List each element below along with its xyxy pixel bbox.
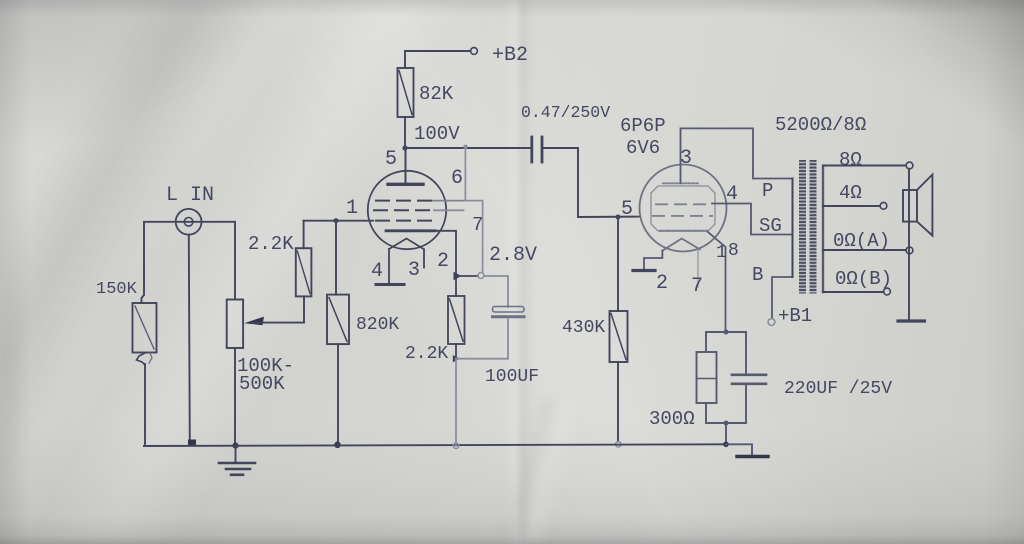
suppressor to cathode node wire	[465, 201, 482, 272]
svg-text:820K: 820K	[356, 315, 399, 335]
ground speaker	[898, 319, 925, 322]
svg-text:6: 6	[451, 167, 463, 190]
junction bypass bottom	[453, 355, 460, 362]
svg-text:2.2K: 2.2K	[405, 344, 448, 364]
svg-text:4Ω: 4Ω	[839, 182, 862, 204]
ground rail	[144, 444, 726, 446]
wire 82K to plate node	[404, 117, 406, 148]
wire cathode node to bypass branch	[456, 275, 478, 277]
svg-text:5: 5	[385, 148, 397, 171]
svg-text:2.2K: 2.2K	[248, 233, 294, 255]
wire jack sleeve to ground rail	[189, 235, 190, 443]
resistor 2.2K grid stopper	[248, 233, 311, 296]
junction cathode top	[724, 330, 729, 335]
tap 0 ohm A	[823, 230, 913, 254]
wire 820K to ground rail	[337, 344, 339, 445]
node 5 plate node	[385, 145, 408, 171]
svg-text:3: 3	[408, 259, 420, 282]
node grid junction	[616, 215, 621, 220]
svg-text:6P6P: 6P6P	[620, 115, 666, 137]
bottom rail RC	[706, 422, 746, 424]
svg-text:100V: 100V	[414, 123, 460, 145]
svg-text:6V6: 6V6	[626, 137, 660, 159]
cathode of V1	[386, 229, 435, 232]
screen grid row of V1	[376, 200, 433, 202]
control grid row of V1	[376, 220, 433, 222]
wire grid node to 430K	[617, 217, 619, 311]
svg-text:100K-: 100K-	[237, 355, 294, 377]
svg-text:0.47/250V: 0.47/250V	[521, 103, 610, 122]
wire +B2 to 82K	[405, 51, 471, 68]
junction rail right	[723, 442, 729, 448]
svg-text:7: 7	[691, 275, 703, 298]
potentiometer 100K-500K	[227, 300, 294, 396]
wire RC to ground rail	[725, 423, 727, 444]
pin 4 lead and chassis bar	[371, 249, 404, 285]
svg-text:SG: SG	[759, 215, 782, 237]
ground right chassis bar	[737, 455, 768, 458]
wiper arrow of pot	[244, 317, 304, 326]
wire plate node to coupling cap	[405, 147, 530, 149]
svg-text:8Ω: 8Ω	[839, 149, 862, 171]
svg-text:500K: 500K	[239, 373, 285, 395]
capacitor 100UF	[485, 307, 539, 388]
paper crease diagonal bottom	[470, 400, 590, 544]
node circle pin7 cathode	[478, 273, 484, 279]
junction jack sleeve rail	[188, 440, 196, 447]
svg-text:4: 4	[726, 183, 738, 206]
plate of V1	[388, 148, 423, 184]
svg-text:2: 2	[437, 250, 449, 273]
paper crease vertical	[503, 0, 533, 544]
svg-text:L IN: L IN	[166, 184, 214, 207]
input jack L IN	[166, 184, 214, 235]
bottom rail of bypass	[456, 358, 508, 360]
wire grid of first tube	[304, 220, 373, 222]
svg-text:220UF /25V: 220UF /25V	[784, 379, 892, 399]
suppressor grid row of V1	[374, 209, 434, 211]
wire cathode node to 2.2K	[455, 276, 457, 296]
junction RC bottom	[724, 421, 729, 426]
capacitor 0.47/250V	[521, 103, 610, 162]
junction cathode node	[454, 272, 462, 280]
svg-text:1: 1	[716, 243, 727, 263]
svg-text:P: P	[762, 180, 773, 202]
wire 150K to ground rail	[144, 364, 146, 446]
tube V2 envelope	[640, 165, 727, 252]
pin 2 wire and chassis bar	[633, 251, 668, 295]
wire screen to OPT tap	[712, 204, 792, 235]
cathode of V2	[660, 230, 707, 232]
core bar left	[799, 160, 806, 294]
terminal +B1	[768, 305, 812, 327]
heater of V1	[389, 239, 424, 250]
secondary winding	[822, 166, 824, 292]
top rail RC	[706, 331, 746, 333]
wire jack tip to volume pot	[234, 222, 236, 300]
wire wiper to 2.2K grid stopper	[303, 296, 305, 322]
screen grid extension wire	[433, 200, 465, 202]
svg-text:2: 2	[656, 272, 668, 295]
svg-text:150K: 150K	[96, 280, 138, 299]
svg-text:+B2: +B2	[492, 44, 528, 67]
wire plate to OPT	[681, 128, 793, 178]
junction bypass rail	[453, 443, 459, 449]
suppressor extension wire	[434, 209, 464, 211]
svg-text:5200Ω/8Ω: 5200Ω/8Ω	[775, 114, 866, 136]
cathode lead pins 1 8	[708, 232, 739, 332]
svg-text:300Ω: 300Ω	[649, 408, 695, 430]
svg-text:430K: 430K	[562, 318, 605, 338]
wire B to +B1	[772, 277, 792, 319]
svg-text:8: 8	[728, 241, 739, 261]
screen grid row of V2	[656, 203, 710, 205]
heater of V2	[662, 239, 699, 251]
tap 0 ohm B	[823, 268, 892, 295]
svg-text:2.8V: 2.8V	[489, 244, 537, 267]
wire 2.2K bottom	[455, 344, 457, 359]
wire jack tip to 150K branch	[142, 222, 236, 303]
control grid row of V2	[653, 215, 712, 217]
tap 8 ohm	[823, 149, 913, 171]
wire pot to ground rail	[234, 348, 236, 446]
resistor 150K	[96, 280, 157, 365]
tube V1 envelope	[368, 171, 446, 249]
svg-text:7: 7	[472, 214, 483, 236]
cathode wire of V1	[435, 231, 456, 276]
wire to 100UF cap	[484, 276, 508, 307]
plate of V2	[663, 182, 698, 184]
tap 4 ohm	[823, 182, 887, 209]
speaker line	[908, 169, 910, 320]
junction grid 820K	[334, 197, 359, 223]
speaker	[903, 175, 932, 236]
svg-text:4: 4	[371, 260, 383, 283]
resistor 300 ohm	[649, 332, 717, 430]
wire 430K to ground rail	[617, 362, 619, 442]
wire coupling cap to grid of 6P6P	[544, 148, 640, 217]
ground symbol earth	[219, 446, 255, 475]
svg-text:5: 5	[621, 198, 633, 221]
beam plates of V2	[651, 186, 715, 231]
wire junction to 820K	[335, 221, 337, 295]
svg-text:100UF: 100UF	[485, 367, 539, 387]
resistor 820K	[327, 295, 399, 345]
core bar right	[810, 160, 817, 294]
svg-text:3: 3	[680, 147, 692, 170]
resistor 82K	[398, 68, 454, 117]
wire bypass to ground rail	[455, 359, 457, 446]
wire 2.2K to grid wire	[303, 221, 305, 249]
svg-text:+B1: +B1	[778, 305, 812, 327]
capacitor 220UF	[732, 332, 892, 423]
junction 430K rail	[616, 442, 622, 448]
primary winding	[792, 179, 794, 278]
svg-text:B: B	[752, 264, 763, 286]
svg-text:1: 1	[346, 197, 358, 220]
pin 3 stub	[408, 249, 424, 282]
node +B2 terminal	[471, 44, 528, 67]
wire 100UF to bottom rail	[507, 320, 509, 359]
resistor 2.2K cathode	[405, 296, 465, 364]
junction 820K rail	[334, 442, 341, 449]
svg-text:0Ω(A): 0Ω(A)	[833, 230, 890, 252]
resistor 430K	[562, 311, 628, 362]
svg-text:82K: 82K	[419, 83, 454, 105]
wire rail to right ground	[726, 444, 752, 455]
screen to plate node wire	[463, 145, 467, 201]
junction pot rail	[232, 443, 238, 449]
svg-text:0Ω(B): 0Ω(B)	[835, 268, 892, 290]
pin 7 stub	[691, 250, 703, 298]
plate lead pin 3	[680, 128, 692, 183]
